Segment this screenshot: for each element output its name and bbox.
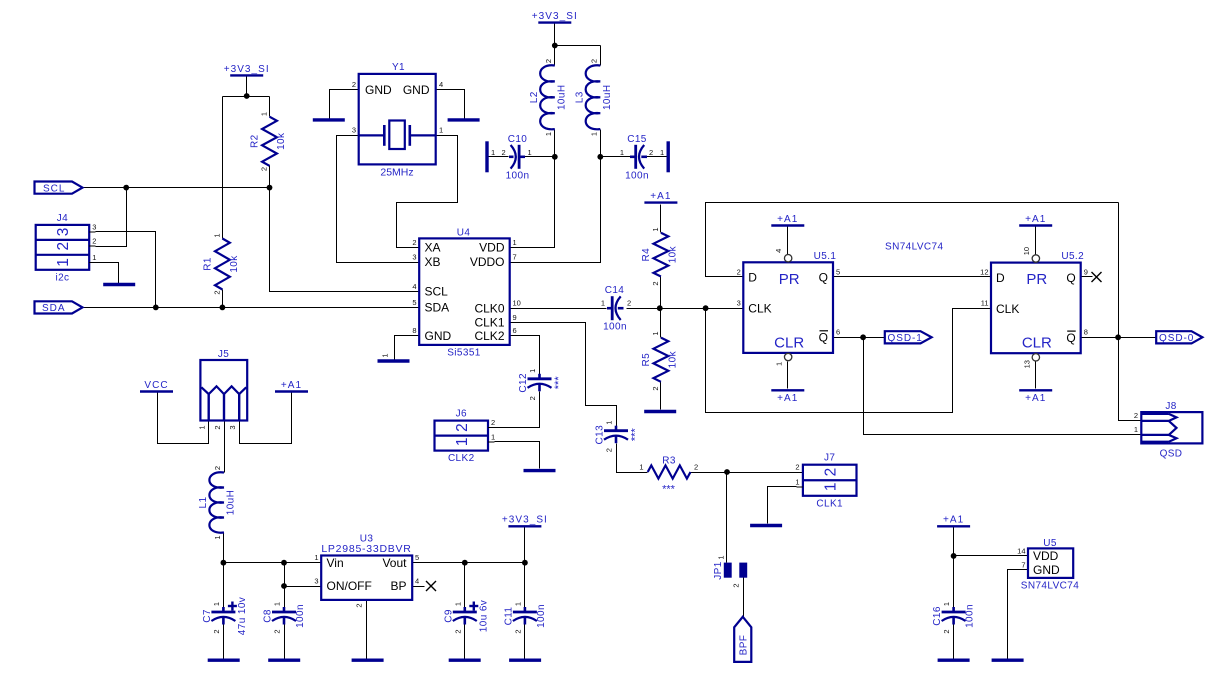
connector J8: [1134, 401, 1203, 460]
svg-text:9: 9: [513, 313, 517, 322]
wire +3V3_SI stub bottom: [524, 528, 526, 563]
svg-text:C10: C10: [508, 134, 528, 145]
wire +3V3_SI stub top: [554, 24, 556, 46]
svg-text:CLR: CLR: [1022, 335, 1052, 352]
svg-text:QSD: QSD: [1160, 449, 1183, 460]
ground at U4 GND: [378, 359, 410, 362]
svg-text:2: 2: [454, 423, 471, 432]
wire Vin rail: [224, 562, 322, 564]
capacitor C11: [503, 602, 547, 634]
svg-text:2: 2: [528, 396, 537, 400]
wire C7 top: [223, 563, 225, 610]
svg-text:2: 2: [491, 418, 495, 427]
flip-flop U5.1: [737, 249, 841, 366]
svg-text:BPF: BPF: [739, 635, 750, 656]
svg-text:JP1: JP1: [713, 561, 724, 579]
wire R3 to J7 pin2: [691, 472, 803, 474]
ground at Y1 pin4: [448, 118, 480, 121]
IC U5 power SN74LVC74: [1017, 538, 1079, 592]
capacitor C15: [620, 134, 664, 182]
wire R1 top: [222, 97, 224, 239]
svg-text:3: 3: [352, 126, 356, 135]
svg-text:C11: C11: [503, 607, 514, 626]
svg-text:2: 2: [412, 238, 416, 247]
jumper JP1: [713, 555, 747, 587]
junction: [153, 305, 159, 311]
svg-text:2: 2: [212, 629, 221, 633]
svg-text:25MHz: 25MHz: [380, 167, 413, 179]
wire R1 bottom: [222, 290, 224, 308]
wire R3 to JP1: [726, 473, 728, 563]
svg-text:1: 1: [795, 477, 799, 486]
wire C15 left lead: [601, 156, 631, 158]
svg-text:5: 5: [836, 267, 840, 276]
svg-text:1: 1: [260, 112, 269, 116]
svg-text:i2c: i2c: [55, 272, 69, 283]
svg-text:Vin: Vin: [327, 556, 344, 570]
svg-text:10: 10: [513, 299, 521, 308]
svg-text:U5.1: U5.1: [814, 251, 837, 262]
svg-text:3: 3: [314, 577, 318, 586]
svg-text:+A1: +A1: [281, 380, 302, 391]
resistor R5: [641, 331, 679, 390]
svg-text:1: 1: [605, 421, 614, 425]
net flag QSD-0: [1156, 331, 1202, 344]
svg-text:6: 6: [513, 326, 517, 335]
svg-text:3: 3: [92, 222, 96, 231]
no-connect X on U3 BP: [426, 581, 436, 591]
junction: [657, 305, 663, 311]
wire L2 bottom to VDD: [510, 130, 555, 248]
svg-text:QSD-1: QSD-1: [888, 333, 923, 344]
svg-text:+3V3_SI: +3V3_SI: [532, 11, 578, 22]
svg-text:14: 14: [1017, 547, 1025, 556]
svg-text:GND: GND: [425, 329, 452, 343]
svg-text:VCC: VCC: [144, 380, 168, 391]
svg-text:2: 2: [795, 463, 799, 472]
svg-text:2: 2: [55, 242, 72, 251]
svg-text:10u 6v: 10u 6v: [478, 600, 489, 632]
wire U3 BP stub: [413, 586, 425, 588]
wire J7 pin1 to ground: [768, 487, 797, 524]
wire Y1 pin2 to ground: [330, 90, 359, 119]
svg-text:+A1: +A1: [1025, 393, 1046, 404]
ground at C11: [509, 659, 541, 662]
svg-text:LP2985-33DBVR: LP2985-33DBVR: [321, 543, 411, 555]
junction: [703, 305, 709, 311]
junction: [267, 185, 273, 191]
svg-text:3: 3: [737, 298, 741, 307]
svg-text:2: 2: [1134, 411, 1138, 420]
svg-text:1: 1: [55, 258, 72, 267]
svg-text:1: 1: [198, 425, 207, 429]
wire C16 bottom: [953, 625, 955, 659]
svg-text:4: 4: [412, 282, 416, 291]
svg-text:2: 2: [92, 237, 96, 246]
wire Y1 pin1 to XA: [397, 136, 458, 248]
wire +A1 stub to U5 VDD: [954, 528, 1029, 556]
power +A1 at U5.1 PR: [771, 214, 804, 226]
svg-text:C7: C7: [202, 609, 213, 623]
junction: [221, 560, 227, 566]
svg-text:Q: Q: [819, 271, 828, 285]
svg-text:2: 2: [352, 80, 356, 89]
svg-text:2: 2: [651, 281, 660, 285]
svg-text:U5: U5: [1043, 538, 1057, 549]
svg-text:10k: 10k: [276, 132, 287, 150]
svg-text:ON/OFF: ON/OFF: [327, 579, 372, 593]
svg-text:J4: J4: [57, 213, 68, 224]
wire R2 bottom: [269, 166, 271, 188]
ground at Y1 pin2: [313, 118, 345, 121]
svg-text:1: 1: [314, 553, 318, 562]
svg-text:L2: L2: [529, 91, 540, 103]
wire J5 pin1 to VCC: [158, 393, 209, 444]
svg-text:10k: 10k: [667, 245, 678, 263]
svg-text:C15: C15: [627, 134, 647, 145]
svg-text:C12: C12: [518, 373, 529, 393]
wire R4 top: [660, 205, 662, 233]
resistor R2: [250, 112, 288, 171]
inductor L1: [198, 466, 237, 540]
junction: [220, 305, 226, 311]
svg-text:SCL: SCL: [425, 285, 449, 299]
junction: [552, 43, 558, 49]
svg-text:1: 1: [513, 602, 522, 606]
svg-text:2: 2: [651, 386, 660, 390]
net flag QSD-1: [885, 331, 932, 344]
svg-text:2: 2: [212, 290, 221, 294]
wire R1 R2 top rail: [223, 96, 270, 98]
svg-text:5: 5: [415, 553, 419, 562]
resistor R3: [639, 456, 698, 496]
svg-text:CLK2: CLK2: [474, 329, 504, 343]
svg-text:R2: R2: [250, 134, 261, 148]
svg-text:2: 2: [694, 463, 698, 472]
svg-text:GND: GND: [403, 83, 430, 97]
svg-text:3: 3: [412, 253, 416, 262]
svg-text:2: 2: [355, 603, 364, 607]
svg-text:SN74LVC74: SN74LVC74: [1021, 581, 1079, 592]
wire U5.2 CLR to +A1: [1035, 362, 1037, 389]
svg-text:7: 7: [513, 253, 517, 262]
svg-text:GND: GND: [365, 83, 392, 97]
svg-text:Y1: Y1: [392, 62, 405, 73]
svg-text:U5.2: U5.2: [1061, 251, 1084, 262]
wire CLK1 to C13: [510, 323, 617, 427]
svg-text:CLK1: CLK1: [474, 316, 504, 330]
wire U5.2 Q no-connect: [1081, 276, 1093, 278]
svg-text:100n: 100n: [625, 171, 649, 182]
wire U5.1 Q to U5.2 D: [833, 276, 991, 278]
capacitor C13: [595, 421, 642, 453]
svg-text:1: 1: [491, 432, 495, 441]
junction: [522, 560, 528, 566]
svg-text:2: 2: [544, 59, 553, 63]
svg-text:8: 8: [412, 326, 416, 335]
svg-text:4: 4: [774, 249, 783, 253]
svg-text:J7: J7: [824, 453, 835, 464]
wire SDA net: [83, 307, 420, 309]
svg-text:L1: L1: [198, 497, 209, 509]
svg-text:SN74LVC74: SN74LVC74: [885, 242, 943, 253]
wire U3 GND pin2: [366, 600, 368, 659]
ground at R5: [644, 410, 676, 413]
svg-text:R1: R1: [202, 257, 213, 271]
svg-text:10uH: 10uH: [226, 490, 237, 516]
svg-text:3: 3: [55, 228, 72, 237]
wire J4 pin3 to SDA: [96, 232, 156, 308]
wire Vout rail: [413, 562, 525, 564]
svg-text:1: 1: [381, 353, 390, 357]
junction: [860, 334, 866, 340]
svg-text:1: 1: [528, 148, 532, 157]
svg-text:1: 1: [453, 602, 462, 606]
wire R5 top: [660, 309, 662, 338]
J7 pin stubs: [796, 486, 803, 488]
ground at J6: [524, 469, 556, 472]
wire J6 pin1 to ground: [495, 442, 540, 469]
svg-text:2: 2: [627, 299, 631, 308]
svg-text:13: 13: [1022, 360, 1031, 368]
wire L2 top: [554, 46, 556, 66]
wire C9 top: [464, 563, 466, 610]
svg-text:4: 4: [415, 577, 419, 586]
svg-text:2: 2: [502, 148, 506, 157]
svg-text:J8: J8: [1165, 401, 1176, 412]
svg-text:1: 1: [212, 233, 221, 237]
svg-text:1: 1: [601, 299, 605, 308]
wire +3V3_SI stub left: [246, 77, 248, 97]
junction: [597, 154, 603, 160]
svg-text:2: 2: [213, 425, 222, 429]
svg-text:SDA: SDA: [42, 303, 66, 314]
svg-text:7: 7: [1021, 561, 1025, 570]
svg-text:8: 8: [1084, 328, 1088, 337]
junction: [281, 560, 287, 566]
crystal Y1: [352, 62, 443, 179]
svg-text:2: 2: [605, 448, 614, 452]
svg-text:2: 2: [260, 167, 269, 171]
svg-text:Q: Q: [1066, 271, 1075, 285]
svg-text:10uH: 10uH: [602, 85, 613, 111]
svg-text:D: D: [748, 271, 757, 285]
svg-text:9: 9: [1084, 268, 1088, 277]
wire R5 bottom: [660, 382, 662, 410]
junction: [244, 93, 250, 99]
capacitor C10: [491, 134, 532, 182]
wire J5 pin2 to L1: [224, 421, 226, 473]
power +A1 at J5: [275, 380, 308, 392]
svg-text:100n: 100n: [506, 171, 530, 182]
ground at C16: [938, 659, 970, 662]
wire C9 bottom: [464, 625, 466, 659]
wire C11 bottom: [524, 625, 526, 659]
wire C13 bottom to R3: [617, 444, 648, 473]
ground at U5 GND: [992, 659, 1024, 662]
wire C8 bottom: [284, 625, 286, 659]
svg-text:2: 2: [589, 59, 598, 63]
svg-text:6: 6: [836, 327, 840, 336]
wire C15 right lead: [647, 156, 667, 158]
wire U5.1 Qbar to QSD-1: [833, 337, 885, 339]
net flag SCL: [35, 182, 83, 195]
svg-text:+A1: +A1: [943, 515, 964, 526]
svg-text:1: 1: [660, 148, 664, 157]
power +A1 at R4: [644, 191, 677, 203]
wire U5.2 PR to +A1: [1035, 227, 1037, 255]
svg-text:47u 10v: 47u 10v: [237, 597, 248, 635]
wire U5.2 Qbar to QSD-0: [1081, 337, 1157, 339]
power VCC: [140, 380, 173, 392]
wire SCL net: [83, 188, 420, 292]
wire R2 top: [269, 97, 271, 117]
svg-text:1: 1: [454, 437, 471, 446]
capacitor C16: [932, 602, 976, 634]
svg-text:10k: 10k: [667, 350, 678, 368]
power +A1 at U5.1 CLR: [771, 390, 804, 404]
svg-text:1: 1: [639, 463, 643, 472]
svg-text:2: 2: [453, 629, 462, 633]
svg-text:1: 1: [213, 535, 222, 539]
ground at J4: [103, 283, 135, 286]
svg-text:10: 10: [1022, 247, 1031, 255]
power +A1 at U5.2 PR: [1019, 214, 1052, 226]
svg-text:PR: PR: [1026, 271, 1047, 288]
svg-text:CLK: CLK: [748, 302, 771, 316]
connector J4: [36, 213, 97, 283]
wire L3 bottom to VDDO: [510, 130, 601, 263]
svg-text:1: 1: [544, 132, 553, 136]
ground at U3: [352, 659, 384, 662]
power +3V3_SI: [532, 11, 578, 23]
svg-text:GND: GND: [1033, 563, 1060, 577]
svg-text:100n: 100n: [965, 604, 976, 628]
svg-text:XB: XB: [425, 255, 441, 269]
svg-text:Q: Q: [1066, 331, 1075, 345]
svg-text:10uH: 10uH: [556, 85, 567, 111]
inductor L3: [574, 59, 613, 136]
flip-flop U5.2: [980, 247, 1088, 368]
wire R4 bottom: [660, 277, 662, 309]
svg-text:+3V3_SI: +3V3_SI: [224, 64, 270, 75]
svg-text:1: 1: [822, 482, 839, 491]
svg-text:+A1: +A1: [777, 214, 798, 225]
svg-text:R4: R4: [641, 248, 652, 262]
ground at C10: [485, 141, 488, 172]
svg-text:1: 1: [439, 126, 443, 135]
svg-text:CLK: CLK: [996, 302, 1019, 316]
svg-text:VDD: VDD: [479, 241, 505, 255]
svg-text:J6: J6: [456, 409, 467, 420]
svg-text:2: 2: [822, 468, 839, 477]
wire C14 to R divider: [627, 308, 706, 310]
resistor R4: [641, 227, 679, 285]
power +A1 at C16: [937, 515, 970, 527]
wire ON/OFF to Vin: [285, 586, 322, 588]
svg-text:100n: 100n: [603, 322, 627, 333]
svg-text:BP: BP: [390, 579, 406, 593]
junction: [281, 583, 287, 589]
wire J5 pin3 to +A1: [240, 393, 292, 444]
svg-text:J5: J5: [218, 349, 229, 360]
svg-text:11: 11: [981, 299, 989, 308]
wire L3 top: [600, 46, 602, 66]
svg-text:1: 1: [491, 148, 495, 157]
svg-text:+A1: +A1: [777, 393, 798, 404]
wire L1 bottom to Vin rail: [223, 533, 225, 563]
svg-text:***: ***: [630, 428, 642, 442]
svg-text:3: 3: [228, 425, 237, 429]
wire J4 pin1 to ground: [96, 263, 119, 284]
svg-text:+A1: +A1: [650, 191, 671, 202]
svg-text:2: 2: [942, 629, 951, 633]
svg-text:1: 1: [775, 362, 784, 366]
svg-text:SDA: SDA: [425, 301, 450, 315]
wire C11 top: [524, 563, 526, 610]
svg-text:12: 12: [980, 268, 988, 277]
svg-text:U4: U4: [457, 228, 471, 239]
svg-text:1: 1: [589, 132, 598, 136]
connector J6: [435, 409, 496, 465]
svg-text:1: 1: [212, 602, 221, 606]
wire CLK0 to U5.2 CLK: [706, 309, 991, 413]
wire QSD-0 to J8 pin2: [1119, 203, 1142, 421]
capacitor C14: [601, 285, 631, 333]
IC U4 Si5351: [412, 228, 521, 359]
inductor L2: [529, 59, 568, 136]
svg-text:1: 1: [92, 253, 96, 262]
wire J4 pin2 to SCL: [96, 188, 127, 247]
svg-text:***: ***: [553, 376, 565, 390]
svg-text:1: 1: [273, 602, 282, 606]
junction: [1115, 334, 1121, 340]
svg-text:PR: PR: [779, 271, 800, 288]
wire C8 top: [284, 563, 286, 610]
svg-text:CLK0: CLK0: [474, 301, 504, 315]
svg-text:1: 1: [651, 331, 660, 335]
svg-text:1: 1: [717, 555, 726, 559]
ground at C7: [208, 659, 240, 662]
wire C10 left lead: [489, 156, 509, 158]
svg-text:2: 2: [737, 267, 741, 276]
svg-text:VDD: VDD: [1033, 549, 1059, 563]
wire CLK2 to C12: [510, 336, 540, 375]
wire QSD-1 to J8 pin1: [864, 338, 1142, 435]
capacitor C9: [443, 600, 489, 634]
svg-text:SCL: SCL: [43, 183, 65, 194]
capacitor C12: [518, 369, 565, 401]
no-connect X on U5.2 Q: [1092, 272, 1102, 282]
wire L2 L3 top rail: [555, 45, 601, 47]
power +3V3_SI: [502, 515, 548, 527]
ground at C8: [268, 659, 300, 662]
svg-text:CLR: CLR: [774, 334, 804, 351]
capacitor C8: [263, 602, 307, 634]
svg-text:5: 5: [412, 298, 416, 307]
wire QSD-0 feedback to D: [706, 203, 1119, 277]
capacitor C7: [202, 597, 248, 635]
wire U4 GND pin8 to ground: [395, 336, 420, 360]
svg-text:***: ***: [662, 484, 676, 496]
connector J5: [198, 349, 248, 430]
wire U5.1 CLR to +A1: [787, 362, 789, 389]
svg-text:+3V3_SI: +3V3_SI: [502, 515, 548, 526]
svg-text:XA: XA: [425, 241, 441, 255]
ground at C9: [449, 659, 481, 662]
svg-text:1: 1: [1134, 425, 1138, 434]
svg-text:2: 2: [649, 148, 653, 157]
